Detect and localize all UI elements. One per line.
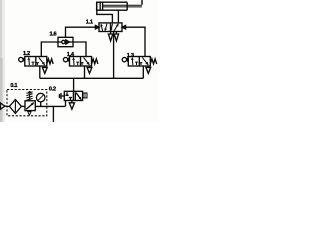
valve 0.2 3/2-way hand shut-off valve [59,91,87,109]
wire: 1.2 port 1 down to rail [39,66,41,78]
wire: regulator to 0.2 [35,105,65,107]
wire: cylinder left port to valve 1.1 port 4 [97,10,113,23]
svg-text:1.2: 1.2 [23,51,30,57]
detent of 0.2 [83,93,87,98]
svg-text:0.2: 0.2 [49,86,56,92]
svg-text:1.3: 1.3 [127,53,134,59]
cylinder 1.0 (double-acting) [96,0,142,10]
blocked ports left box 0.2 [65,92,72,100]
pilot arrow right of 1.1 [122,26,126,29]
valve 1.2 3/2-way pushbutton valve [19,57,54,79]
shuttle valve 1.6 (two-pressure valve) [58,37,73,46]
pushbutton actuator of 1.3 [122,57,126,61]
exhaust triangle port 3 of valve 1.1 [114,32,118,41]
pilot arrow left of 1.1 [95,26,99,29]
filter of service unit [9,100,21,114]
wire: right pilot of 1.1 to valve 1.3 port 2 [125,27,145,56]
wire: 1.4 port 1 down to rail [84,66,86,78]
branch line down to edge [52,106,54,122]
svg-text:0.1: 0.1 [10,83,17,89]
flow glyphs of 1.3 [131,57,134,65]
valve 1.4 3/2-way pushbutton valve [63,57,98,79]
flow glyphs of 1.4 [72,57,75,65]
svg-text:1.1: 1.1 [86,19,93,25]
pressure regulator of service unit [25,91,35,115]
piston of cylinder 1.0 [100,2,102,10]
wire: source to filter [7,105,9,107]
rod end flag marker [141,0,143,5]
pushbutton actuator of 1.4 [63,57,67,61]
hand-slide actuator of 0.2 [59,93,64,99]
flow glyphs of 1.2 [28,57,31,65]
wire: filter to regulator [21,105,25,107]
return spring of 1.4 [92,59,98,64]
valve 1.1 5/2-way double pilot impulse valve [99,23,122,32]
scanner edge smudge [0,0,5,122]
piston rod [103,5,142,7]
air service unit 0.1 dashed enclosure [7,90,47,116]
return spring of 1.3 [150,59,156,64]
svg-text:1.4: 1.4 [67,52,75,58]
arrows in right box of 1.1 (1-2, 4-5) [114,24,118,31]
wire: 1.6 left input down to valve 1.2 port 2 [41,42,58,57]
air supply rail [40,77,144,79]
exhaust triangle port 5 of valve 1.1 [108,32,112,41]
wire: 1.3 port 1 down to rail [142,66,144,78]
exhaust triangle of 1.3 [146,66,151,73]
svg-text:1.6: 1.6 [50,32,57,38]
exhaust triangle of 1.4 [87,66,92,73]
adjustment spring of regulator [26,92,32,100]
wire: 1.6 right input down to valve 1.4 port 2 [73,42,86,57]
wire: rail down to valve 0.2 output [73,78,75,91]
arrows in left box of 1.1 (1-4, 2-3) [101,24,103,31]
pressure gauge of service unit [36,93,45,106]
flow path right box 0.2 [75,92,81,100]
valve 1.3 3/2-way pushbutton valve [122,57,156,79]
exhaust triangle of 0.2 [69,101,74,110]
wire: supply line valve 1.1 port 1 down to air rail [113,32,115,79]
pushbutton actuator of 1.2 [19,57,23,61]
wire: 1.6 output up and right to left pilot of 1.1 [66,27,96,37]
relief exhaust of regulator [28,111,31,116]
return spring of 1.2 [47,59,53,64]
exhaust triangle of 1.2 [42,66,47,73]
wire: cylinder right port to valve 1.1 port 2 [117,10,119,23]
compressed air source [0,103,5,109]
wire: 0.2 port 1 down to service unit line [65,101,67,107]
